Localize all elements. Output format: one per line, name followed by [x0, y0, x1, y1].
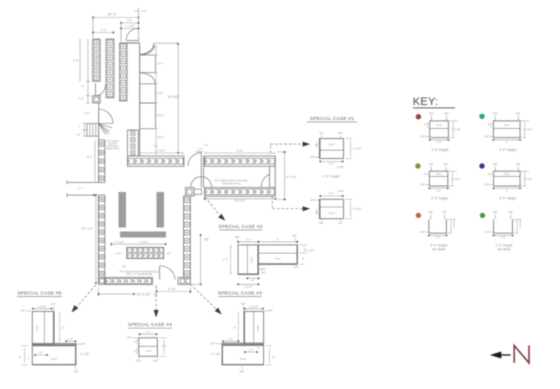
key entry olive narrow 4in — [415, 162, 460, 201]
svg-text:No Shelf: No Shelf — [498, 248, 511, 252]
svg-text:1' 4": 1' 4" — [329, 162, 334, 166]
north arrow — [490, 352, 511, 359]
svg-text:1' 6": 1' 6" — [79, 97, 84, 101]
svg-text:6' 5": 6' 5" — [73, 59, 79, 63]
svg-text:0' 6" Height: 0' 6" Height — [499, 148, 516, 152]
svg-text:3/4": 3/4" — [338, 131, 343, 135]
svg-text:3/4": 3/4" — [136, 359, 141, 363]
sc1 upper case — [319, 139, 343, 159]
svg-text:5": 5" — [62, 327, 64, 330]
east strip top corner block — [186, 188, 202, 197]
bottom wall corner case — [99, 278, 106, 285]
svg-text:1'-0": 1'-0" — [141, 9, 147, 13]
svg-text:3/4": 3/4" — [319, 221, 324, 225]
svg-text:1 3 1/4": 1 3 1/4" — [249, 305, 258, 309]
gray pylon east — [157, 192, 165, 228]
svg-text:3/4": 3/4" — [268, 309, 273, 313]
svg-text:Shelf: Shelf — [240, 357, 246, 361]
east wing strip L vertical — [127, 130, 138, 156]
lower room east case strip — [184, 196, 191, 278]
svg-text:0' 4" Height: 0' 4" Height — [323, 175, 340, 179]
svg-text:3/4": 3/4" — [211, 342, 216, 346]
east wing north strip east half — [205, 156, 276, 166]
svg-text:3/4": 3/4" — [311, 155, 316, 159]
special case 1 label — [307, 116, 357, 122]
east wing door arc east quarter — [261, 173, 275, 187]
svg-text:1' 4": 1' 4" — [501, 236, 506, 240]
gray low wall — [120, 232, 166, 238]
svg-text:KEY:: KEY: — [413, 96, 439, 108]
dimension 20ft5half south — [98, 287, 192, 297]
svg-text:8": 8" — [488, 173, 490, 176]
svg-text:Shelf: Shelf — [51, 357, 57, 361]
svg-text:(WINDOW WALL): (WINDOW WALL) — [222, 183, 241, 186]
grid side texts — [115, 253, 171, 269]
case strip C corridor west — [120, 43, 128, 101]
entry door arc upper — [126, 28, 138, 40]
svg-text:3/4": 3/4" — [485, 230, 490, 234]
svg-text:1 5/8": 1 5/8" — [337, 165, 344, 169]
lower room west wall line — [98, 195, 100, 284]
svg-text:3/4": 3/4" — [261, 271, 266, 275]
svg-text:5' 4": 5' 4" — [158, 62, 163, 66]
svg-text:8'-2": 8'-2" — [237, 149, 243, 153]
svg-text:1' 3 1/4": 1' 3 1/4" — [451, 177, 460, 181]
stair wall east — [98, 103, 100, 140]
leader to special case 4 — [154, 285, 159, 317]
dimension above table grid — [111, 240, 167, 246]
svg-text:10' 4": 10' 4" — [107, 12, 117, 17]
svg-text:3/4": 3/4" — [311, 198, 316, 202]
svg-text:20': 20' — [204, 238, 209, 242]
svg-text:0' 6" Height: 0' 6" Height — [432, 148, 449, 152]
svg-text:3/4": 3/4" — [485, 183, 490, 187]
note no cases center aisle — [119, 270, 158, 276]
svg-text:SPECIAL CASE #4: SPECIAL CASE #4 — [128, 322, 172, 328]
key entry orange U 6in — [416, 210, 456, 251]
svg-text:1'-0": 1'-0" — [204, 144, 209, 147]
svg-text:10": 10" — [77, 133, 81, 137]
svg-text:1' 4": 1' 4" — [437, 140, 442, 144]
svg-text:(MIN 3'-0" CLEARANCE): (MIN 3'-0" CLEARANCE) — [126, 273, 153, 276]
svg-text:1' 4": 1' 4" — [329, 192, 334, 196]
svg-text:4": 4" — [27, 358, 29, 361]
case strip B top-left — [106, 39, 114, 98]
svg-text:4' 1/2": 4' 1/2" — [157, 149, 165, 153]
svg-text:4": 4" — [81, 85, 84, 89]
leader to special case 2 — [205, 197, 225, 221]
special case 2 label — [218, 224, 262, 230]
dimension 10ft4 top — [92, 8, 139, 42]
svg-text:1' 6": 1' 6" — [127, 19, 133, 23]
key heading — [413, 96, 455, 108]
svg-text:3/4": 3/4" — [429, 112, 434, 116]
dimension 8ft4half east — [277, 151, 297, 200]
leader to special case 3 — [190, 284, 221, 314]
left dim column ticks — [79, 39, 90, 103]
svg-text:8": 8" — [488, 124, 490, 127]
west wall door arc — [96, 83, 106, 95]
svg-text:SPECIAL CASE #5: SPECIAL CASE #5 — [17, 291, 61, 297]
svg-text:1 3 1/4": 1 3 1/4" — [38, 305, 47, 309]
dimension below east wing south strip — [204, 198, 276, 202]
sc1 lower case — [319, 199, 343, 218]
svg-text:23 1/2": 23 1/2" — [168, 95, 180, 99]
leader to special case 5 — [72, 285, 96, 313]
svg-text:8": 8" — [134, 341, 136, 344]
svg-text:Shelf: Shelf — [436, 172, 442, 176]
special case 4 diagram — [127, 330, 167, 363]
svg-text:20' 5 1/2": 20' 5 1/2" — [136, 292, 151, 296]
svg-text:(SHELVING): (SHELVING) — [106, 148, 120, 151]
svg-text:8'-2 1/2": 8'-2 1/2" — [235, 198, 245, 202]
svg-text:Shelf: Shelf — [145, 349, 151, 353]
south door leaf and arc — [160, 266, 175, 280]
leader to special case 1 lower — [272, 196, 310, 211]
svg-text:3/4": 3/4" — [484, 134, 489, 138]
dimension above east wing strips — [138, 148, 275, 154]
svg-text:1 1/2": 1 1/2" — [115, 253, 122, 256]
special case 1 upper diagram — [311, 131, 362, 169]
svg-text:3/4": 3/4" — [444, 112, 449, 116]
dimension above strips — [92, 28, 114, 33]
svg-text:4' 1/2": 4' 1/2" — [140, 240, 148, 244]
east wing north strip west half — [127, 156, 183, 166]
svg-text:1' 4": 1' 4" — [228, 337, 233, 341]
svg-text:3/4": 3/4" — [516, 162, 521, 166]
svg-text:1' 4": 1' 4" — [37, 351, 42, 355]
svg-text:4' 6": 4' 6" — [85, 111, 90, 115]
svg-text:3/4": 3/4" — [319, 131, 324, 135]
svg-text:3/4": 3/4" — [21, 309, 26, 313]
lower room west outside dim — [82, 194, 97, 284]
svg-text:1' 1 1/2": 1' 1 1/2" — [125, 24, 135, 28]
svg-text:3/4": 3/4" — [493, 210, 498, 214]
svg-text:3/4": 3/4" — [420, 183, 425, 187]
svg-text:1' 3 1/4": 1' 3 1/4" — [114, 240, 124, 244]
svg-text:1' 4": 1' 4" — [436, 188, 441, 192]
svg-text:1' 2 7/8": 1' 2 7/8" — [211, 352, 220, 356]
note no cases this wall upper — [106, 140, 120, 151]
dimension 1ft1half — [120, 24, 139, 29]
svg-text:8' 2": 8' 2" — [87, 155, 93, 159]
special case 1 lower diagram — [311, 189, 362, 225]
svg-text:Shelf: Shelf — [35, 325, 39, 331]
svg-text:1' 3 1/4": 1' 3 1/4" — [352, 207, 362, 211]
svg-text:0' 4" Height: 0' 4" Height — [431, 196, 448, 200]
svg-text:1' 3 1/4": 1' 3 1/4" — [352, 146, 362, 150]
special case 3 label — [218, 291, 262, 297]
svg-text:8": 8" — [273, 356, 275, 359]
special case 3 diagram — [211, 302, 275, 374]
closet rect 1 — [140, 55, 156, 73]
stair left dim ticks — [77, 124, 87, 137]
special case 4 label — [128, 322, 172, 328]
svg-text:3/4": 3/4" — [428, 210, 433, 214]
svg-text:8' 4 1/2": 8' 4 1/2" — [286, 175, 296, 179]
svg-text:4": 4" — [257, 347, 259, 350]
svg-text:Shelf: Shelf — [504, 123, 510, 127]
svg-text:No Shelf: No Shelf — [432, 248, 445, 252]
svg-text:2' 7": 2' 7" — [78, 187, 84, 191]
svg-text:SPECIAL CASE #2: SPECIAL CASE #2 — [218, 224, 262, 230]
svg-text:Shelf: Shelf — [328, 142, 335, 146]
east wing east connector wall — [269, 166, 275, 187]
lower room west case strip — [99, 195, 105, 277]
closet rect 2 — [140, 84, 156, 103]
dimension 1ft6 — [120, 19, 139, 42]
special case 5 label — [17, 291, 62, 297]
svg-text:5": 5" — [234, 327, 236, 330]
svg-text:8": 8" — [424, 124, 426, 127]
dimension 6ft5 left of strip A — [73, 39, 81, 81]
svg-text:3/4": 3/4" — [338, 221, 343, 225]
east wing south strip — [205, 188, 276, 197]
svg-text:3/4": 3/4" — [444, 162, 449, 166]
straight stair flight — [87, 124, 109, 137]
svg-text:1 3 1/4": 1 3 1/4" — [244, 284, 253, 288]
winder stair fan — [99, 109, 113, 134]
east wing door leaf and swing — [188, 153, 204, 188]
svg-text:3/4": 3/4" — [516, 112, 521, 116]
svg-text:1' 2": 1' 2" — [153, 45, 158, 49]
svg-text:3/4": 3/4" — [421, 134, 426, 138]
svg-text:3/4": 3/4" — [81, 342, 86, 346]
dimension 20ft east — [192, 234, 209, 285]
svg-text:SPECIAL CASE #3: SPECIAL CASE #3 — [218, 291, 262, 297]
svg-text:18' 1 1/2": 18' 1 1/2" — [82, 227, 94, 231]
svg-text:3/4": 3/4" — [429, 162, 434, 166]
svg-text:8": 8" — [315, 212, 317, 215]
svg-text:Shelf: Shelf — [504, 172, 510, 176]
svg-text:8": 8" — [19, 356, 21, 359]
svg-text:3/4": 3/4" — [240, 370, 245, 374]
svg-text:3/4": 3/4" — [292, 233, 297, 237]
svg-text:3' 4": 3' 4" — [101, 28, 107, 32]
dimension 23 half vertical — [168, 43, 180, 154]
svg-text:3/4": 3/4" — [493, 112, 498, 116]
svg-text:6": 6" — [134, 351, 136, 354]
svg-text:1' 2 7/8": 1' 2 7/8" — [80, 352, 89, 356]
north wall dim extension — [153, 42, 178, 44]
key entry navy wide 4in — [479, 162, 532, 201]
svg-text:Shelf: Shelf — [275, 257, 281, 261]
special case 5 diagram — [19, 302, 90, 373]
svg-text:4'2": 4'2" — [167, 253, 171, 256]
svg-text:3/4": 3/4" — [235, 235, 240, 239]
north letter N — [514, 346, 529, 363]
svg-text:SPECIAL CASE #1: SPECIAL CASE #1 — [310, 116, 354, 122]
key entry green U 2in — [480, 210, 522, 251]
svg-text:3/4": 3/4" — [153, 359, 158, 363]
note no cases east wing — [214, 180, 249, 186]
svg-text:8": 8" — [424, 173, 426, 176]
corridor inner west wall — [139, 44, 141, 156]
top wall — [121, 42, 141, 44]
svg-text:0' 4" Height: 0' 4" Height — [499, 196, 516, 200]
lower room south case strip — [105, 278, 152, 285]
svg-text:3/4": 3/4" — [508, 210, 513, 214]
closet door arc top — [140, 45, 154, 55]
svg-text:8": 8" — [302, 258, 304, 261]
corridor case strip — [99, 140, 105, 183]
gray pylon west — [119, 192, 127, 228]
svg-text:1'10": 1'10" — [157, 91, 163, 95]
svg-text:1' 4": 1' 4" — [435, 236, 440, 240]
svg-text:3/4": 3/4" — [420, 230, 425, 234]
single case below door — [93, 96, 101, 103]
east wing door arc west semicircle — [191, 177, 212, 187]
svg-text:3/4": 3/4" — [51, 302, 56, 306]
special case 2 diagram — [223, 233, 315, 288]
south wall corner block — [178, 278, 190, 285]
key entry red narrow 6in — [416, 112, 461, 152]
svg-text:Shelf: Shelf — [328, 211, 335, 215]
case strip A top-left — [93, 39, 101, 81]
svg-text:1' 4": 1' 4" — [145, 330, 150, 334]
svg-text:1' 4": 1' 4" — [248, 348, 253, 352]
svg-text:1' 3 1/4": 1' 3 1/4" — [523, 177, 532, 181]
svg-text:Shelf: Shelf — [436, 123, 442, 127]
svg-text:Shelf: Shelf — [256, 325, 260, 331]
svg-text:1 5/8": 1 5/8" — [337, 189, 344, 193]
svg-text:4'1/2": 4'1/2" — [157, 114, 164, 118]
svg-text:1' 4": 1' 4" — [68, 337, 73, 341]
key entry teal wide 6in — [479, 112, 532, 152]
svg-text:3/4": 3/4" — [442, 210, 447, 214]
svg-text:5'-1/2": 5'-1/2" — [168, 287, 176, 291]
table grid 7x2 — [127, 247, 164, 258]
closet rect 3 — [140, 103, 156, 129]
svg-text:1 3 1/4": 1 3 1/4" — [306, 249, 315, 253]
dimension 1ft0 top right — [135, 9, 147, 13]
svg-text:1' 4": 1' 4" — [246, 238, 251, 242]
svg-text:1' 3 1/4": 1' 3 1/4" — [451, 128, 460, 132]
leader to special case 1 upper — [271, 142, 311, 153]
closet door arc middle — [140, 73, 155, 84]
svg-text:3/4": 3/4" — [294, 265, 299, 269]
corridor west dim line — [94, 140, 96, 182]
svg-text:5'2": 5'2" — [122, 266, 126, 269]
svg-text:4'1/2": 4'1/2" — [157, 135, 164, 139]
svg-text:1' 4": 1' 4" — [162, 344, 167, 348]
svg-text:3/4": 3/4" — [241, 302, 246, 306]
inner door arc at top wall — [140, 44, 154, 55]
svg-text:1' 4": 1' 4" — [223, 258, 228, 262]
svg-text:8": 8" — [315, 145, 317, 148]
svg-text:3/4": 3/4" — [127, 336, 132, 340]
svg-text:3/4": 3/4" — [74, 370, 79, 374]
svg-text:2' 2": 2' 2" — [198, 148, 203, 151]
svg-text:Shelf: Shelf — [250, 257, 254, 263]
inner dim column — [153, 45, 164, 156]
west opening jambs — [67, 180, 99, 197]
svg-text:6": 6" — [252, 278, 254, 282]
svg-text:1' 3 1/4": 1' 3 1/4" — [523, 128, 532, 132]
svg-text:3/4": 3/4" — [493, 162, 498, 166]
